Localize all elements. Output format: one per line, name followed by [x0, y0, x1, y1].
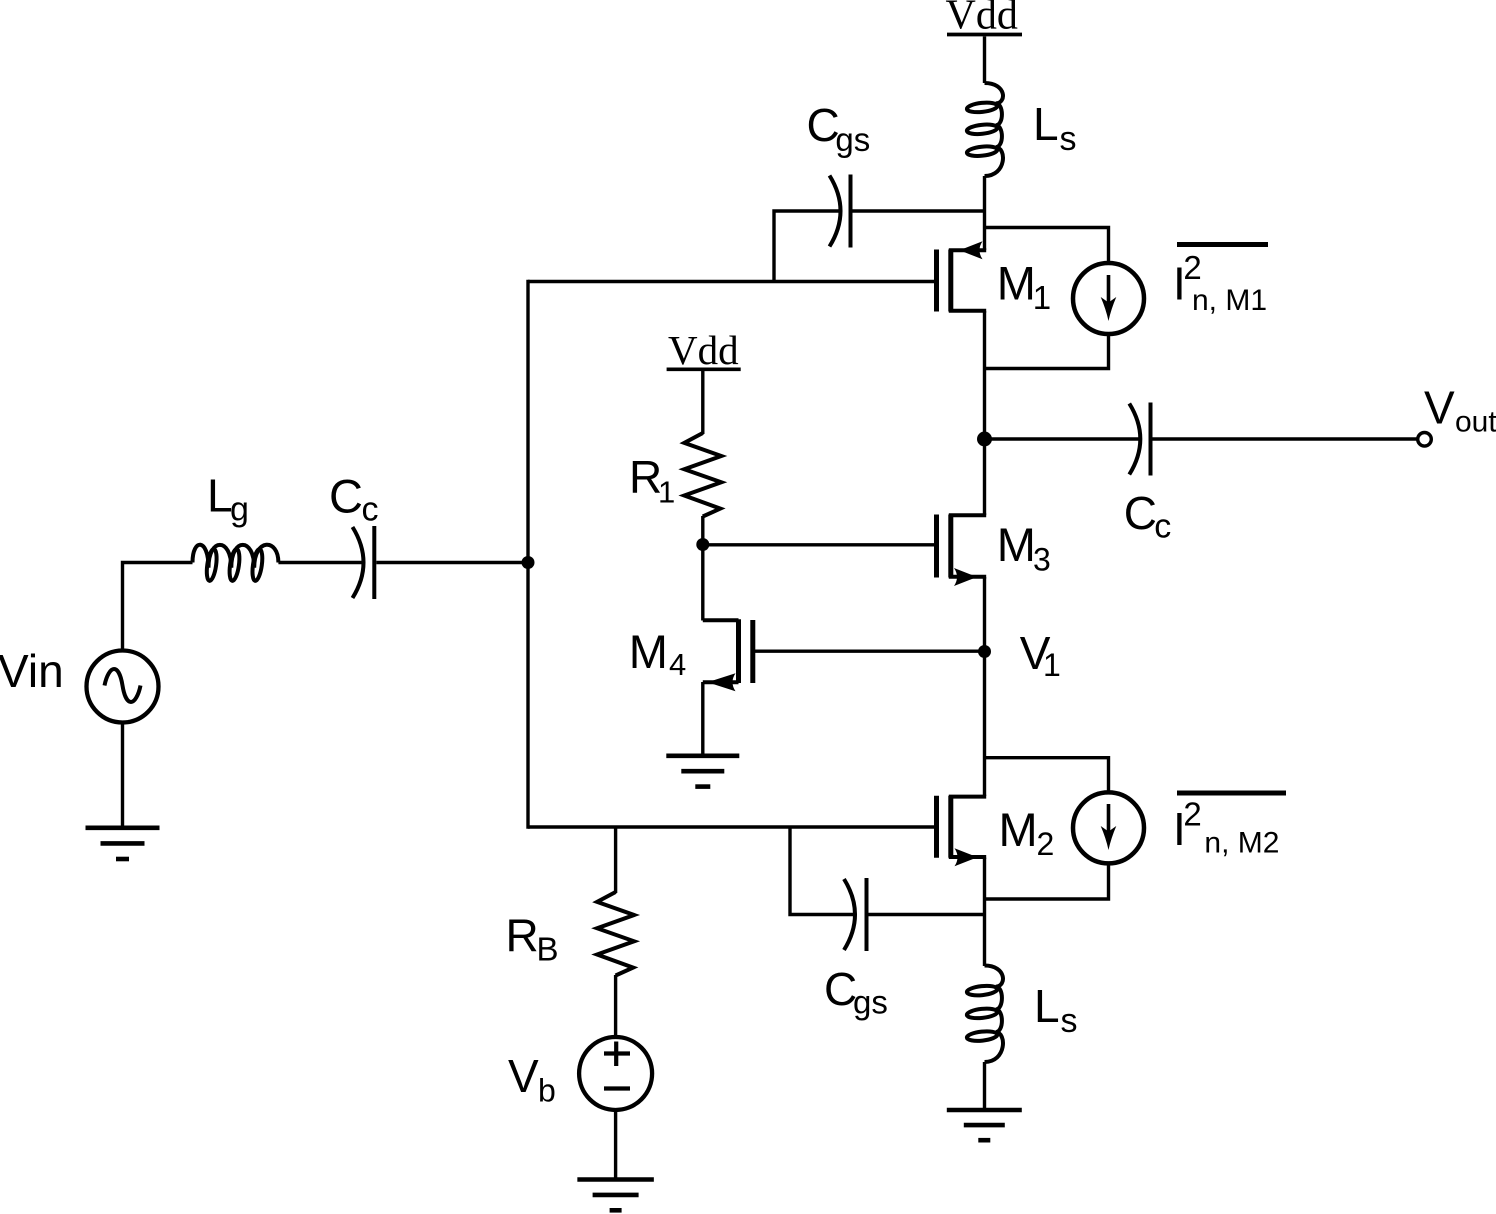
label M1	[997, 257, 1051, 317]
svg-text:M: M	[999, 803, 1038, 856]
label Cc (input)	[329, 470, 379, 529]
label I2n,M2	[1173, 793, 1286, 860]
svg-text:Vdd: Vdd	[668, 327, 739, 373]
transistor M3	[937, 515, 987, 587]
resistor R1	[684, 433, 721, 517]
label Vout	[1424, 382, 1496, 439]
label Cc (output)	[1124, 487, 1172, 546]
label Lg	[207, 470, 249, 529]
svg-text:s: s	[1060, 120, 1077, 158]
label Cgs (top)	[807, 99, 871, 158]
svg-text:4: 4	[669, 647, 686, 682]
wire rail to RB	[614, 827, 617, 893]
label M2	[999, 803, 1055, 862]
wire Cc to input node	[376, 561, 528, 564]
label V1	[1020, 627, 1061, 683]
node V1	[978, 645, 991, 658]
capacitor Cc (output)	[1129, 403, 1150, 476]
ground (Vin)	[86, 828, 160, 859]
power Vdd (top)	[946, 0, 1023, 39]
node: R1/M3-gate node	[696, 538, 709, 551]
wire: left rail	[526, 280, 529, 829]
transistor M4 (mirrored)	[703, 619, 753, 691]
svg-text:s: s	[1061, 1002, 1078, 1040]
node: input node	[522, 556, 535, 569]
label R1	[629, 451, 675, 510]
terminal Vout	[1418, 433, 1432, 447]
wire Vb to ground	[614, 1110, 617, 1178]
svg-text:1: 1	[1043, 647, 1061, 683]
wire gate node to M4 drain	[701, 545, 704, 621]
wire M4 source to ground	[701, 682, 704, 754]
wire R1 to gate node	[701, 516, 704, 545]
wire Cgs-top to M1 source	[853, 209, 985, 212]
inductor Ls (top)	[966, 83, 1003, 176]
svg-text:M: M	[997, 518, 1036, 571]
inductor Ls (bottom)	[966, 966, 1003, 1063]
svg-text:2: 2	[1183, 796, 1201, 833]
voltage source Vb	[579, 1037, 652, 1110]
svg-text:c: c	[1154, 508, 1171, 546]
voltage source Vin	[87, 651, 159, 723]
label Ls (top)	[1033, 98, 1077, 158]
wire Ls to M1 source	[983, 176, 986, 250]
wire Cgs-bottom jog	[790, 827, 855, 915]
svg-text:2: 2	[1037, 826, 1055, 862]
svg-text:C: C	[1124, 487, 1157, 539]
wire Vdd to Ls (top)	[983, 37, 986, 84]
wire Cgs-top jog	[774, 211, 841, 282]
svg-text:gs: gs	[853, 984, 888, 1021]
wire Vin top to Lg	[123, 563, 193, 651]
resistor RB	[597, 892, 634, 976]
label M4	[629, 625, 686, 682]
svg-text:M: M	[629, 625, 668, 678]
wire output node to M3 drain	[983, 439, 986, 515]
node: output node	[977, 432, 992, 447]
label Cgs (bottom)	[824, 963, 888, 1021]
wire V1 to M2 drain	[983, 652, 986, 797]
svg-text:n, M2: n, M2	[1204, 827, 1279, 860]
wire Ls to ground	[983, 1062, 986, 1108]
svg-text:L: L	[207, 470, 233, 522]
svg-text:1: 1	[658, 475, 675, 510]
svg-text:B: B	[537, 931, 559, 968]
wire M3 source to V1	[983, 577, 986, 652]
label RB	[506, 910, 559, 968]
noise source box M1	[985, 228, 1109, 369]
wire Cgs-bottom to M2 source	[869, 913, 985, 916]
ground (Ls bottom)	[947, 1110, 1022, 1140]
wire M4 gate to V1	[755, 650, 985, 653]
svg-text:3: 3	[1033, 542, 1051, 578]
wire gate node to M3 gate	[703, 543, 937, 546]
ground (M4)	[666, 756, 739, 787]
inductor Lg	[193, 545, 279, 582]
svg-text:out: out	[1455, 406, 1496, 439]
svg-text:C: C	[329, 470, 363, 523]
wire Vdd to R1	[701, 371, 704, 434]
svg-text:g: g	[230, 491, 249, 529]
power Vdd (middle)	[667, 327, 741, 373]
label I2n,M1	[1173, 245, 1268, 318]
ground (Vb)	[577, 1180, 654, 1211]
capacitor Cgs (bottom)	[844, 878, 867, 951]
wire RB to Vb	[614, 975, 617, 1038]
svg-text:L: L	[1034, 980, 1060, 1032]
wire output node to Cc	[985, 437, 1141, 440]
transistor M2	[937, 796, 987, 867]
wire M2 source down	[983, 858, 986, 967]
svg-text:V: V	[1424, 382, 1455, 434]
svg-text:Vin: Vin	[0, 645, 64, 697]
noise current source I2n,M2	[1073, 792, 1144, 863]
capacitor Cc (input)	[353, 526, 375, 599]
svg-text:n, M1: n, M1	[1192, 284, 1267, 317]
wire Lg to Cc	[278, 561, 363, 564]
wire Vin bottom to ground	[121, 723, 124, 827]
capacitor Cgs (top)	[830, 175, 851, 248]
transistor M1	[937, 241, 987, 311]
svg-text:gs: gs	[835, 121, 870, 158]
svg-text:2: 2	[1183, 249, 1201, 286]
wire: top gate line to M1 gate	[528, 280, 937, 283]
svg-text:R: R	[506, 910, 539, 962]
wire Cc to Vout	[1153, 437, 1419, 440]
svg-text:L: L	[1033, 98, 1059, 150]
svg-text:1: 1	[1033, 279, 1051, 316]
svg-text:c: c	[362, 491, 379, 529]
wire M1 drain to output node	[983, 311, 986, 439]
wire: bottom rail to M2 gate	[528, 825, 937, 828]
noise source box M2	[985, 758, 1109, 899]
noise current source I2n,M1	[1073, 263, 1144, 334]
svg-text:b: b	[538, 1073, 556, 1109]
label Vb	[508, 1050, 556, 1109]
label M3	[997, 518, 1051, 578]
label Ls (bottom)	[1034, 980, 1078, 1040]
label Vin	[0, 645, 64, 697]
svg-text:V: V	[508, 1050, 539, 1102]
svg-text:M: M	[997, 257, 1036, 310]
